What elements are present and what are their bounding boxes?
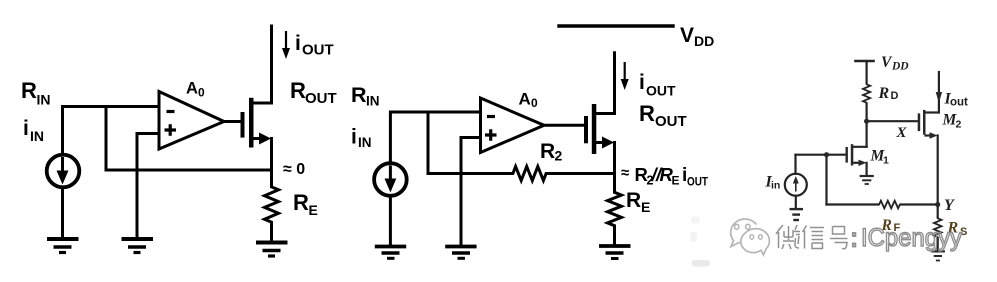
ground G6 (599, 246, 631, 259)
transistor M2 source arrow (930, 132, 938, 138)
svg-text:R: R (626, 189, 641, 212)
resistor RS zigzag (934, 217, 942, 239)
transistor M1 channel bar (851, 144, 854, 165)
current source Iin arrow (795, 182, 797, 192)
svg-text:IN: IN (366, 94, 380, 109)
svg-text:i: i (351, 126, 357, 149)
svg-text:IN: IN (358, 135, 372, 150)
svg-text:A: A (186, 80, 198, 98)
svg-text:i: i (23, 117, 29, 140)
svg-text:E: E (309, 202, 318, 218)
svg-text:R: R (351, 83, 367, 107)
transistor Q1 channel bar (249, 98, 254, 148)
svg-text:R: R (21, 78, 37, 103)
wire I_in top vertical (794, 155, 796, 174)
current arrow iOUT2 (624, 62, 626, 81)
watermark smudge 3 (692, 260, 711, 267)
node Y junction dot (935, 202, 940, 207)
transistor M2 gate bar (918, 113, 921, 131)
resistor RE2 zigzag (608, 190, 622, 228)
current source Iin circle (785, 174, 807, 196)
svg-text:1: 1 (883, 155, 889, 167)
watermark wechat logo small bubble eyes (750, 235, 754, 239)
wire current source to ground (61, 187, 64, 239)
svg-text:E: E (641, 199, 650, 215)
watermark smudge 2 (690, 232, 697, 242)
VDD supply bar (856, 60, 874, 63)
svg-text:R: R (293, 190, 309, 215)
svg-text:i: i (295, 32, 301, 55)
wire I_in bottom to ground (795, 196, 797, 208)
resistor R2 zigzag (511, 167, 548, 181)
wire RF to node Y (901, 203, 938, 205)
transistor Q2 gate bar (584, 116, 588, 143)
wire source vertical to RE2 (613, 143, 616, 191)
transistor M1 source arrow (859, 160, 867, 166)
watermark hanzi wei (776, 225, 800, 249)
watermark wechat logo big bubble (731, 219, 757, 246)
wire I_in node: gate wire (796, 154, 846, 156)
transistor M1 gate bar (846, 147, 848, 163)
wire node X down to M1 drain (865, 121, 867, 147)
transistor Q1 source arrow (259, 133, 271, 145)
svg-text:2: 2 (956, 119, 962, 131)
svg-text:Y: Y (944, 197, 955, 214)
transistor M2 channel bar (923, 110, 926, 135)
op-amp U2 triangle (481, 98, 545, 153)
current source I2 arrow (389, 166, 392, 181)
ground G1 (47, 239, 79, 253)
wire source vertical to RE (270, 139, 273, 186)
current arrow Iout head (936, 92, 942, 103)
wire RE2 to ground (613, 228, 616, 246)
wire node Y to RS (937, 205, 939, 218)
wire input node top: from current source up and right to op-amp minus input (63, 107, 160, 155)
node dot at M1 gate wire (824, 152, 829, 157)
wire M2 drain vertical / Iout (938, 72, 940, 113)
svg-text:D: D (891, 90, 899, 102)
transistor Q1 gate bar (241, 112, 245, 138)
ground G5 (445, 247, 476, 259)
wire junction vertical to feedback bottom wire (105, 107, 108, 171)
ground G4 (375, 247, 406, 259)
resistor RE1 zigzag (265, 185, 279, 225)
wire op-amp plus input down to ground (137, 134, 159, 240)
wire M2 drain stub (926, 111, 939, 113)
svg-text:OUT: OUT (302, 42, 334, 59)
transistor Q2 source arrow (602, 137, 614, 149)
svg-text:OUT: OUT (646, 83, 676, 99)
svg-text:R: R (290, 78, 306, 103)
transistor Q2 channel bar (592, 104, 597, 154)
svg-text:≈ 0: ≈ 0 (283, 161, 305, 178)
svg-text:R: R (878, 85, 890, 102)
svg-text:IN: IN (30, 128, 44, 144)
wire drain vertical up c2 (613, 53, 616, 114)
wire source stub (253, 137, 262, 140)
wire op-amp2 output to gate (544, 124, 584, 127)
svg-text:R: R (540, 140, 555, 163)
watermark wechat logo small bubble (741, 229, 770, 255)
svg-text:X: X (896, 125, 908, 141)
wire drain vertical up (270, 26, 273, 103)
wire op-amp output to gate (224, 120, 241, 123)
wire node down from gate junction (825, 155, 827, 205)
wire feedback bottom: input node to MOSFET source node (106, 169, 272, 172)
svg-text:E: E (672, 174, 680, 188)
wire RE to ground (270, 226, 273, 243)
wire RD to node X (865, 104, 867, 121)
wire feedback left segment to R2 (428, 172, 510, 175)
op-amp 2 plus sign (485, 129, 497, 140)
wire current source 2 to ground (389, 196, 392, 247)
ground under M1 (860, 176, 874, 184)
svg-text:DD: DD (694, 33, 714, 49)
wire M1 drain stub (853, 146, 867, 148)
watermark wechat logo big bubble eyes (735, 224, 739, 229)
wire bottom left to RF (827, 203, 879, 205)
wire M2 source stub (926, 134, 932, 136)
node X junction dot (864, 119, 869, 124)
svg-text:DD: DD (891, 61, 909, 73)
svg-text:in: in (771, 180, 780, 192)
resistor RF zigzag (878, 201, 901, 209)
resistor RD zigzag (863, 83, 870, 104)
svg-text:0: 0 (531, 96, 538, 110)
wire feedback right segment to source node (548, 172, 615, 175)
svg-text:2: 2 (555, 148, 563, 164)
svg-text:V: V (680, 24, 694, 47)
wire junction vertical c2 (427, 112, 430, 174)
svg-text:i: i (639, 71, 645, 94)
svg-text:0: 0 (198, 86, 205, 100)
svg-text:≈: ≈ (621, 165, 629, 182)
wire node X to M2 gate (867, 120, 918, 122)
svg-text:IN: IN (37, 92, 51, 108)
watermark colon (853, 233, 856, 247)
ground under Iin (790, 209, 804, 220)
op-amp 1 minus sign (167, 110, 175, 113)
ground under RS (931, 251, 945, 260)
svg-text:ICpengyy: ICpengyy (861, 224, 962, 252)
svg-text:A: A (519, 90, 531, 109)
wire RS to ground (937, 239, 939, 251)
ground G2 (122, 239, 154, 253)
wire VDD to RD (865, 61, 867, 83)
svg-text:OUT: OUT (305, 90, 337, 107)
svg-text:out: out (950, 97, 968, 109)
wire drain stub c2 (595, 112, 615, 115)
current source I2 circle (374, 163, 407, 196)
wire drain stub (252, 102, 272, 105)
current source I1 circle (47, 155, 80, 188)
wire M2 source vertical to Y (937, 136, 939, 205)
wire source stub c2 (596, 141, 605, 144)
VDD rail line (559, 24, 673, 27)
watermark hanzi hao (830, 227, 848, 249)
svg-text:OUT: OUT (687, 175, 709, 189)
op-amp 2 minus sign (487, 115, 495, 118)
wire input node top c2 (390, 112, 480, 164)
op-amp U1 triangle (159, 92, 224, 150)
watermark hanzi xin (803, 226, 825, 249)
wire op-amp2 plus input down to ground (461, 138, 481, 247)
current source I1 arrow (61, 157, 64, 172)
wire M1 source stub (853, 162, 860, 164)
watermark smudge 1 (691, 217, 700, 224)
ground G3 (256, 243, 288, 257)
svg-text:R: R (639, 101, 655, 126)
svg-text:OUT: OUT (655, 113, 687, 130)
op-amp 1 plus sign (165, 124, 177, 135)
current arrow iOUT1 (285, 31, 287, 50)
wire M1 source to ground (865, 163, 867, 175)
